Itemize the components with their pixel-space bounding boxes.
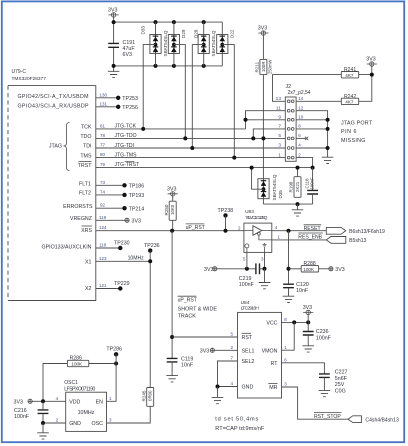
- wire RT pin 6 to C227: [282, 357, 325, 374]
- svg-text:10K0: 10K0: [170, 204, 175, 215]
- wire uP_RST drop to U84 RST and C119: [171, 231, 173, 359]
- text JTAG PORT note: [341, 120, 373, 144]
- svg-text:2K21: 2K21: [295, 181, 300, 192]
- wire GND pin 4: [218, 381, 238, 387]
- svg-text:73: 73: [100, 180, 106, 185]
- test point TP193: [122, 193, 144, 199]
- power 3V3 inline right of R288: [319, 267, 345, 273]
- svg-text:TCK: TCK: [81, 124, 92, 130]
- resistor R250 10K0: [164, 201, 176, 220]
- svg-text:SEL2: SEL2: [242, 359, 255, 365]
- wire JTG-TMS row (pin 80) to J2 pin 1: [96, 152, 285, 158]
- svg-text:LFSPXO071190: LFSPXO071190: [64, 387, 95, 393]
- node X1/10MHz junction: [148, 259, 152, 263]
- svg-text:OSC: OSC: [92, 421, 104, 427]
- U79 pin 131 wire to TP256: [96, 101, 118, 107]
- svg-text:12: 12: [298, 105, 304, 110]
- svg-text:GPIO43/SCI-A_RX/USBDP: GPIO43/SCI-A_RX/USBDP: [18, 104, 89, 110]
- resistor R198 2K21: [289, 177, 301, 198]
- IC U84 LTC2916H: [238, 300, 282, 398]
- wire R286 right to TP286/EN riser: [89, 363, 116, 365]
- svg-text:130: 130: [100, 92, 108, 97]
- capacitor C120 10nF: [283, 282, 309, 296]
- wire VCC pin 8 to 3V3 and C236: [282, 317, 309, 322]
- svg-text:VCC: VCC: [266, 321, 277, 327]
- wire D35 tap to TRST row: [252, 168, 264, 190]
- svg-text:123: 123: [99, 256, 107, 261]
- wire J2 pin 4: [296, 147, 328, 149]
- wire R286 left down to 3V3/VDD node: [43, 364, 67, 402]
- svg-text:118: 118: [99, 243, 107, 248]
- text uP_RST SHORT & WIDE TRACK: [178, 296, 218, 319]
- svg-text:TRST: TRST: [78, 163, 93, 169]
- wire C191 branch down: [113, 22, 115, 72]
- svg-text:92: 92: [100, 203, 106, 208]
- wire U84 RST pin 5: [172, 332, 237, 338]
- svg-text:OSC1: OSC1: [64, 380, 78, 386]
- svg-text:TP230: TP230: [114, 241, 130, 247]
- svg-text:0R00: 0R00: [148, 390, 153, 401]
- svg-text:25V: 25V: [335, 382, 345, 388]
- node junctions top rail: [112, 20, 116, 24]
- power 3V3 above R250: [167, 186, 178, 201]
- wire OSC pin 3 to R245: [107, 406, 151, 423]
- svg-text:ERRORSTS: ERRORSTS: [63, 204, 93, 210]
- svg-text:XRS: XRS: [81, 228, 92, 234]
- svg-text:11: 11: [276, 105, 281, 111]
- svg-text:77: 77: [100, 143, 106, 148]
- power 3V3 inline at VREGNZ: [125, 218, 141, 224]
- wire R241 right to 3V3 node, down to R242: [359, 75, 372, 102]
- svg-text:C0G: C0G: [335, 388, 346, 394]
- U83 pin 1 wire to RES_ENB flag: [272, 235, 327, 240]
- svg-text:R245: R245: [141, 390, 146, 401]
- svg-text:JTAG: JTAG: [49, 144, 62, 150]
- svg-text:FLT2: FLT2: [79, 190, 91, 196]
- U79 pin 73 wire to TP186: [96, 180, 125, 186]
- test point TP286: [106, 347, 122, 357]
- capacitor C236 100nF: [303, 329, 332, 346]
- U79 pin 74 wire to TP193: [96, 189, 125, 195]
- test point TP238: [218, 208, 234, 217]
- U79 pin 92 wire to TP214: [96, 203, 125, 209]
- svg-text:JTAG PORT: JTAG PORT: [341, 120, 373, 126]
- wire C216 to GND pin 2: [43, 418, 66, 424]
- node junctions bottom rail: [112, 64, 116, 68]
- diode D28 (dual BAT54S column): [194, 22, 210, 66]
- svg-text:3V3: 3V3: [366, 56, 375, 62]
- capacitor C227 5n6F 25V C0G: [319, 370, 348, 395]
- svg-text:R211: R211: [255, 61, 260, 72]
- svg-text:X1: X1: [85, 259, 92, 265]
- wire D22 tap to JTG-TMS: [222, 45, 234, 158]
- test point TP230: [114, 241, 130, 251]
- ground below C236: [302, 346, 314, 352]
- wire TRST to R198: [297, 168, 299, 177]
- svg-text:C236: C236: [316, 329, 329, 335]
- svg-text:TP214: TP214: [129, 206, 145, 212]
- capacitor C119 10nF: [167, 356, 194, 375]
- wire diode bottom rail: [114, 65, 223, 67]
- svg-text:B6sh13/F6sh19: B6sh13/F6sh19: [349, 229, 385, 235]
- svg-text:C191: C191: [123, 40, 136, 46]
- svg-text:121: 121: [99, 283, 107, 288]
- wire SEL2 pin 7 to GND: [218, 356, 238, 387]
- wire uP_RST row (pin 124, XRS) to U83: [96, 225, 244, 231]
- svg-text:79: 79: [100, 162, 106, 167]
- text td set note: [215, 416, 265, 432]
- wire 3V3 to VDD pin 4: [32, 396, 65, 402]
- U79 pin 118 wire to TP230: [96, 243, 121, 249]
- svg-text:RES_ENB: RES_ENB: [298, 234, 322, 240]
- svg-text:RST_STOP: RST_STOP: [314, 414, 341, 420]
- svg-text:10MHz: 10MHz: [78, 410, 95, 416]
- svg-text:250mW: 250mW: [268, 60, 273, 74]
- wire SEL1 pin 2: [214, 345, 237, 351]
- svg-text:MR: MR: [269, 385, 277, 391]
- net label uP_RST: [186, 224, 205, 231]
- wire J2 pin 10: [296, 119, 328, 121]
- ground below R198: [292, 210, 304, 216]
- wire J2 pin 13 up to R241: [273, 75, 342, 102]
- svg-text:X2: X2: [85, 286, 92, 292]
- svg-text:C4sh4/B4sh13: C4sh4/B4sh13: [365, 417, 399, 423]
- capacitor C118 100nF: [305, 168, 318, 205]
- ground below C120: [283, 296, 295, 302]
- svg-text:C120: C120: [296, 282, 309, 288]
- U79 pin 121 wire to TP229: [96, 283, 121, 289]
- wire 3V3 top rail: [114, 21, 223, 23]
- ground at J2 pin bus: [322, 157, 334, 163]
- svg-text:C227: C227: [335, 370, 348, 376]
- svg-text:GND: GND: [242, 385, 254, 391]
- resistor R241 4K7: [341, 67, 358, 78]
- wire JTG-TDI row (pin 77) to J2 pin 3: [96, 143, 285, 149]
- wire JTG-TDO row (pin 78) to J2 pin 5: [96, 133, 285, 139]
- svg-text:10MHz: 10MHz: [128, 255, 145, 261]
- svg-text:FLT1: FLT1: [79, 182, 91, 188]
- svg-text:LTC2916H: LTC2916H: [241, 305, 260, 311]
- wire R198/C118/D35 bottom rail to ground: [263, 203, 312, 205]
- svg-text:C216: C216: [14, 408, 27, 414]
- input flag RES_ENB: [326, 237, 346, 244]
- connector J2 2x7_p2,54: [276, 84, 311, 161]
- svg-text:TP238: TP238: [218, 208, 234, 214]
- svg-text:7: 7: [278, 124, 281, 130]
- svg-text:3V3: 3V3: [132, 218, 141, 224]
- test point TP236: [144, 243, 160, 253]
- U79 pin 130 wire to TP253: [96, 92, 118, 98]
- wire R250 to uP_RST row: [172, 220, 174, 230]
- svg-text:VMON: VMON: [262, 348, 278, 354]
- svg-text:5n6F: 5n6F: [335, 376, 348, 382]
- svg-text:14: 14: [298, 96, 304, 101]
- wire D28 tap to JTG-TDI: [192, 45, 203, 148]
- svg-text:SBAT54SLQ: SBAT54SLQ: [211, 30, 216, 56]
- svg-text:uP_RST: uP_RST: [186, 225, 205, 231]
- svg-text:uP_RST: uP_RST: [178, 298, 197, 304]
- wire TP286 down to OSC1 EN pin 1: [107, 354, 117, 401]
- wire RESET node down to R288 / C120: [288, 231, 290, 285]
- svg-text:TP286: TP286: [106, 347, 122, 353]
- svg-text:10: 10: [298, 115, 304, 120]
- svg-text:10nF: 10nF: [296, 288, 309, 294]
- resistor R211 100R 250mW: [255, 59, 273, 74]
- svg-text:100K: 100K: [71, 362, 83, 367]
- ground below C227: [319, 390, 331, 396]
- svg-text:74LVC1G125Q: 74LVC1G125Q: [245, 215, 268, 221]
- svg-text:td set 50,4ms: td set 50,4ms: [215, 416, 258, 422]
- test point TP256: [116, 105, 138, 111]
- svg-text:TRACK: TRACK: [178, 313, 197, 319]
- svg-text:RESET: RESET: [304, 226, 321, 232]
- svg-text:TP186: TP186: [129, 184, 145, 190]
- svg-text:6V3: 6V3: [123, 52, 132, 58]
- svg-text:RT: RT: [271, 361, 279, 367]
- svg-text:SBAT54SLQ: SBAT54SLQ: [272, 174, 277, 200]
- capacitor C219 100nF: [239, 263, 265, 288]
- svg-text:1: 1: [278, 152, 281, 158]
- svg-text:10nF: 10nF: [181, 363, 194, 369]
- svg-text:U79-C: U79-C: [12, 69, 27, 75]
- svg-text:TP193: TP193: [129, 193, 145, 199]
- power 3V3 right of R241: [366, 56, 377, 74]
- U83 pin 4 output wire to RESET flag: [272, 225, 327, 231]
- ground below C191: [108, 71, 120, 77]
- svg-text:D22: D22: [229, 29, 234, 38]
- svg-text:C219: C219: [239, 276, 252, 282]
- svg-text:4K7: 4K7: [345, 100, 354, 105]
- svg-text:100nF: 100nF: [239, 282, 255, 288]
- svg-text:RST: RST: [242, 335, 253, 341]
- wire TDO riser to J2 pin 7: [253, 129, 285, 139]
- svg-text:EN: EN: [96, 399, 104, 405]
- U79 pin 123 X1 wire (10MHz net): [96, 255, 150, 261]
- capacitor C216 100nF: [14, 401, 48, 423]
- svg-text:124: 124: [99, 225, 107, 230]
- svg-text:TP256: TP256: [122, 105, 138, 111]
- power 3V3 top left: [108, 8, 119, 23]
- svg-text:D29: D29: [181, 29, 186, 38]
- svg-text:SEL1: SEL1: [242, 348, 255, 354]
- svg-text:80: 80: [100, 152, 106, 157]
- ground below C216: [42, 423, 44, 433]
- svg-text:47uF: 47uF: [123, 46, 136, 52]
- svg-text:3V3: 3V3: [200, 348, 209, 354]
- diode D35 (dual BAT54S column on TRST): [258, 174, 283, 204]
- power 3V3 above U84 VCC: [303, 305, 314, 332]
- diode D29 (dual BAT54S column): [163, 22, 186, 66]
- wire J2 pin 6 stub with no-connect: [296, 137, 308, 140]
- svg-text:131: 131: [100, 101, 108, 106]
- resistor R242 4K7: [341, 94, 358, 105]
- test point TP229: [114, 281, 130, 291]
- svg-text:TDI: TDI: [83, 144, 92, 150]
- test point TP253: [116, 96, 138, 102]
- svg-text:3V3: 3V3: [204, 267, 213, 273]
- svg-text:4K7: 4K7: [345, 73, 354, 78]
- svg-text:74: 74: [100, 189, 106, 194]
- svg-text:SHORT & WIDE: SHORT & WIDE: [178, 306, 218, 312]
- wire TP238 to uP_RST row: [225, 215, 227, 230]
- svg-text:U84: U84: [241, 300, 250, 306]
- wire D33 tap to JTG-TCK: [143, 45, 155, 129]
- output flag RESET: [326, 227, 346, 234]
- power 3V3 inline at C219: [204, 267, 217, 273]
- svg-text:100R: 100R: [261, 62, 266, 73]
- power 3V3 above R211: [258, 26, 269, 60]
- JTAG group brace: [49, 123, 70, 171]
- power 3V3 inline at SEL1: [200, 348, 215, 354]
- svg-text:U83: U83: [245, 209, 254, 215]
- svg-text:R198: R198: [289, 181, 294, 192]
- svg-text:J2: J2: [286, 84, 292, 90]
- U79 pin 119 VREGNZ wire: [96, 215, 125, 221]
- svg-text:SBAT54SLQ: SBAT54SLQ: [163, 30, 168, 56]
- net label RESET: [304, 225, 322, 232]
- svg-text:9: 9: [278, 115, 281, 121]
- capacitor C191: [108, 40, 135, 58]
- svg-text:TDO: TDO: [80, 134, 91, 140]
- wire TP236 / X1 down to R245: [149, 251, 151, 388]
- ground below U84 GND: [217, 387, 219, 398]
- svg-text:GPIO42/SCI-A_TX/USBDM: GPIO42/SCI-A_TX/USBDM: [18, 94, 89, 100]
- input flag RST_STOP: [348, 416, 361, 423]
- svg-text:TP236: TP236: [144, 243, 160, 249]
- svg-text:D35: D35: [278, 190, 283, 199]
- oscillator OSC1 LFSPXO071190: [64, 380, 106, 431]
- svg-text:78: 78: [100, 133, 106, 138]
- net label RST_STOP: [314, 413, 342, 420]
- svg-text:R250: R250: [164, 204, 169, 215]
- svg-text:C119: C119: [181, 356, 193, 362]
- resistor R288 100K: [301, 261, 318, 272]
- svg-text:100K: 100K: [303, 267, 315, 272]
- ground below C119: [166, 376, 178, 382]
- IC U79-C TMS320F28377 (partial symbol, dashed left edge): [8, 69, 96, 301]
- svg-text:100nF: 100nF: [14, 414, 30, 420]
- wire JTG-TCK row (pin 81): [96, 123, 246, 129]
- wire J2 pin 8: [296, 128, 328, 130]
- svg-text:GPIO133/AUXCLKIN: GPIO133/AUXCLKIN: [41, 245, 91, 251]
- svg-text:119: 119: [99, 215, 107, 220]
- diode D33 (dual BAT54S column): [140, 22, 161, 66]
- net label RES_ENB: [298, 233, 323, 240]
- svg-text:RT=CAP td:9ms/nF: RT=CAP td:9ms/nF: [215, 426, 265, 432]
- wire JTG-TRST row (pin 79): [96, 162, 313, 169]
- svg-text:81: 81: [100, 123, 106, 128]
- wire 3V3 to C219 and U83 pins 5/3: [217, 268, 256, 270]
- diode D22 (dual BAT54S column): [211, 22, 234, 66]
- svg-text:5: 5: [278, 133, 281, 139]
- test point TP214: [122, 206, 144, 212]
- wire MR pin 3 to RST_STOP flag: [282, 382, 349, 420]
- svg-text:TP253: TP253: [122, 96, 138, 102]
- wire J2 pin 12 to ground bus: [296, 111, 328, 158]
- wire R242 left to J2 pin 14: [296, 100, 341, 102]
- svg-text:GND: GND: [69, 421, 81, 427]
- svg-text:3: 3: [278, 143, 281, 149]
- svg-text:D33: D33: [140, 26, 145, 35]
- svg-text:MISSING: MISSING: [341, 138, 366, 144]
- resistor R286 100K: [67, 356, 88, 367]
- svg-text:100nF: 100nF: [310, 177, 315, 190]
- svg-text:3V3: 3V3: [335, 267, 344, 273]
- wire D29 tap to JTG-TDO: [174, 45, 185, 139]
- wire R211 down to D35 top, junction on pin5 row: [262, 75, 264, 179]
- test point TP186: [122, 183, 144, 189]
- resistor R245 0R00: [141, 388, 153, 407]
- svg-text:VREGNZ: VREGNZ: [70, 216, 93, 222]
- power 3V3 inline at OSC1 VDD: [14, 399, 33, 405]
- svg-text:TP229: TP229: [114, 281, 130, 287]
- svg-text:TMS: TMS: [80, 153, 92, 159]
- svg-text:3V3: 3V3: [14, 399, 23, 405]
- svg-text:B5sh13: B5sh13: [349, 238, 366, 244]
- svg-text:PIN 6: PIN 6: [341, 129, 357, 135]
- svg-text:100nF: 100nF: [316, 335, 332, 341]
- svg-text:VDD: VDD: [69, 399, 80, 405]
- ground below C219: [264, 269, 266, 283]
- svg-text:TMS320F28377: TMS320F28377: [12, 76, 47, 82]
- wire J2 pin 2 down to TRST row: [296, 158, 313, 168]
- wire VMON pin 1 tied to VCC: [282, 322, 295, 350]
- wire TCK to J2 pins 9/11 riser: [246, 111, 286, 129]
- buffer U83 74LVC1G125Q: [238, 209, 272, 261]
